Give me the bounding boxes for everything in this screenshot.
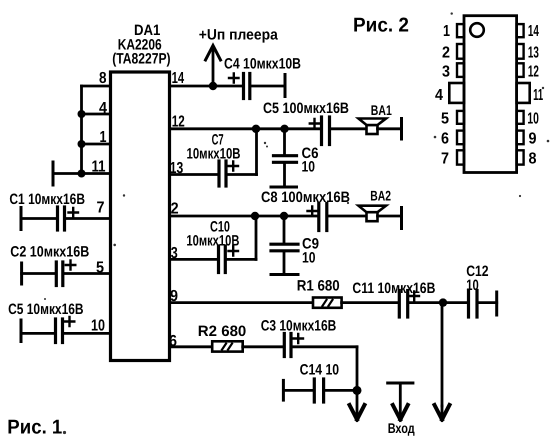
svg-text:BA2: BA2 [370,188,391,204]
terminal bar pin11 [52,162,55,185]
svg-text:10: 10 [466,277,479,294]
op-amp IC DA1 body [111,72,170,361]
svg-text:C14 10: C14 10 [300,362,340,379]
wire pin12 [170,127,322,130]
capacitor C9 [271,216,298,275]
svg-text:10: 10 [91,318,105,335]
svg-text:12: 12 [528,64,539,81]
wire C3 down [356,347,359,391]
svg-text:(TA8227P): (TA8227P) [112,51,170,68]
capacitor C12 [443,291,497,318]
svg-text:12: 12 [172,114,185,131]
svg-text:6: 6 [441,131,449,148]
svg-text:1: 1 [443,23,450,40]
DIP pin 1 [457,24,464,37]
node power junction [209,82,217,90]
svg-text:3: 3 [171,245,178,262]
wire BA1 out [378,127,402,130]
capacitor C14 [283,379,357,402]
speaker BA2 [359,206,387,222]
svg-text:5: 5 [441,111,449,128]
capacitor C3 [243,334,357,357]
DIP pin 2 [457,44,464,59]
svg-text:10мкх10В: 10мкх10В [187,146,241,163]
svg-text:2: 2 [442,45,450,62]
svg-text:Вход: Вход [388,420,415,436]
svg-text:BA1: BA1 [371,102,392,118]
svg-text:4: 4 [99,100,107,117]
svg-text:C8 100мкх16В: C8 100мкх16В [261,189,350,206]
capacitor C5 [310,117,367,145]
svg-text:6: 6 [169,333,177,350]
svg-text:C4 10мкх10В: C4 10мкх10В [224,56,301,73]
node pin4 junction [78,110,86,118]
DIP key circle [470,23,484,37]
svg-text:8: 8 [99,70,107,87]
svg-text:C11 10мкх16В: C11 10мкх16В [352,280,435,297]
power arrow +Un [206,46,221,87]
svg-text:C2 10мкх16В: C2 10мкх16В [10,244,89,261]
svg-text:C5 10мкх16В: C5 10мкх16В [8,301,84,318]
wire pin4 [82,113,111,116]
svg-text:2: 2 [171,201,179,218]
DIP pin 3 [457,63,464,77]
svg-text:11: 11 [533,87,543,104]
resistor R1 [313,298,342,308]
wire left bus [80,86,83,174]
DIP pin 9 [517,131,524,145]
node C9 junction [280,212,288,220]
wire pin6 [170,345,213,348]
capacitor C11 [342,291,443,318]
svg-text:13: 13 [528,45,539,62]
terminal bar C12 [495,292,498,315]
svg-text:14: 14 [172,70,185,87]
svg-text:10мкх10В: 10мкх10В [186,233,239,250]
DIP pin 12 [517,63,524,77]
svg-text:10: 10 [302,250,316,267]
terminal bar C4 [284,75,287,97]
svg-text:+Uп плеера: +Uп плеера [199,27,279,44]
svg-text:10: 10 [527,111,539,128]
DIP pin 5 [457,111,464,124]
capacitor C5a left [21,317,111,343]
wire pin1 [82,143,111,146]
svg-text:8: 8 [529,151,537,168]
svg-text:R2 680: R2 680 [198,323,247,340]
svg-text:C5 100мкх16В: C5 100мкх16В [263,100,349,117]
capacitor C2 [22,261,111,286]
speaker BA1 [359,119,387,135]
node C10 junction [251,212,259,220]
node pin11 junction [78,170,86,178]
ground arrow middle [350,390,365,419]
DIP pin 11 [517,83,530,103]
svg-text:C1 10мкх16В: C1 10мкх16В [9,191,85,208]
capacitor C10 [170,216,257,273]
wire pin9 [170,301,314,304]
wire pin11 [53,172,111,175]
wire pin8 [82,85,111,88]
svg-text:9: 9 [529,131,537,148]
node C6 junction [280,125,288,133]
svg-text:Рис. 2: Рис. 2 [353,15,409,37]
svg-text:C3 10мкх16В: C3 10мкх16В [261,318,337,335]
capacitor C7 [219,129,257,186]
svg-text:10: 10 [302,159,316,176]
capacitor C8 [308,204,367,231]
ground arrow right [435,405,450,420]
node C14 junction [353,386,362,395]
svg-text:R1 680: R1 680 [297,278,340,295]
svg-text:7: 7 [441,151,449,168]
capacitor C4 [229,74,285,99]
svg-text:7: 7 [97,200,105,217]
node pin1 junction [78,140,86,148]
terminal bar BA2 [400,208,403,229]
resistor R2 [212,341,243,351]
capacitor C1 [21,207,111,230]
DIP pin 10 [517,111,524,124]
DIP pin 8 [517,150,524,164]
wire BA2 out [378,215,402,218]
DIP pin 6 [457,131,464,145]
DIP pin 13 [517,44,524,59]
wire pin14 [170,85,244,88]
node C7 junction [252,125,260,133]
wire pin2 [170,215,319,218]
input terminal [388,383,413,420]
DIP pin 7 [457,150,464,164]
svg-text:1: 1 [100,129,107,146]
terminal bar BA1 [400,119,403,140]
svg-text:Рис. 1: Рис. 1 [7,417,62,439]
svg-text:14: 14 [528,23,539,40]
capacitor C6 [271,129,297,187]
DIP pin 4 [449,83,464,103]
node output junction [439,298,447,306]
svg-text:4: 4 [435,87,443,104]
DIP pin 14 [517,24,524,37]
svg-text:9: 9 [170,288,178,305]
wire pin13 [170,173,220,176]
wire output down [441,303,444,406]
DIP package body [464,16,517,173]
svg-text:13: 13 [170,160,184,177]
svg-text:11: 11 [92,159,106,176]
svg-text:5: 5 [96,260,104,277]
svg-text:3: 3 [442,64,450,81]
